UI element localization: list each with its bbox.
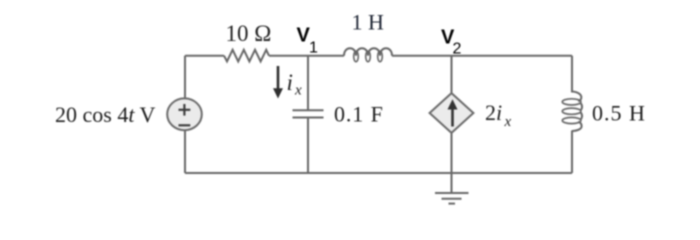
wire diamond to ground through bottom wire xyxy=(451,133,453,193)
svg-text:x: x xyxy=(294,83,302,99)
wire top-left to resistor xyxy=(185,55,224,57)
voltage source plus sign xyxy=(179,104,191,125)
inductor L2 right arc 1 xyxy=(581,103,582,110)
resistor R 10 ohm xyxy=(224,50,269,62)
svg-text:20 cos 4t V: 20 cos 4t V xyxy=(55,102,156,127)
svg-text:10 Ω: 10 Ω xyxy=(226,21,272,46)
wire left vertical below source xyxy=(184,130,186,173)
svg-text:2i: 2i xyxy=(485,100,502,125)
svg-text:0.5 H: 0.5 H xyxy=(592,101,646,126)
inductor L2 0.5H rings xyxy=(562,99,581,105)
wire bottom xyxy=(185,172,572,174)
wire resistor to node V1 and to inductor xyxy=(269,55,344,57)
wire right vertical above coil xyxy=(571,56,573,93)
dependent source diamond xyxy=(430,93,474,133)
wire inductor to node V2 to top-right corner xyxy=(392,55,572,57)
inductor L1 1H humps xyxy=(344,48,392,56)
inductor L2 exit hook xyxy=(572,122,582,131)
inductor L2 entry hook xyxy=(572,92,581,102)
wire V2 branch down to diamond xyxy=(451,56,453,93)
inductor L1 loops xyxy=(354,51,359,62)
wire capacitor to bottom xyxy=(307,118,309,174)
wire left vertical above source xyxy=(184,56,186,99)
current ix arrow down xyxy=(273,66,283,99)
svg-text:0.1 F: 0.1 F xyxy=(334,102,384,127)
capacitor C 0.1F plates xyxy=(293,109,324,111)
svg-text:x: x xyxy=(504,114,512,130)
svg-text:1 H: 1 H xyxy=(352,10,385,35)
voltage source minus sign xyxy=(179,124,191,126)
ground bars xyxy=(435,192,469,194)
wire right vertical below coil xyxy=(571,131,573,174)
wire V1 branch down to capacitor xyxy=(307,56,309,110)
inductor L2 right arc 2 xyxy=(581,113,582,120)
voltage source VS circle xyxy=(167,98,202,130)
svg-text:i: i xyxy=(287,70,293,95)
svg-text:1: 1 xyxy=(309,40,318,57)
dependent source arrow up xyxy=(448,99,458,126)
svg-text:2: 2 xyxy=(453,41,462,58)
